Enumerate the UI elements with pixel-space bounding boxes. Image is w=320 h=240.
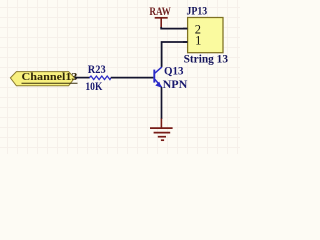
transistor Q13 <box>154 67 162 88</box>
pin 1 <box>183 41 188 43</box>
resistor R23 <box>89 76 111 80</box>
wire Q13 collector to JP13 pin 1 <box>162 42 188 67</box>
wire R23 to Q13 base <box>111 77 154 79</box>
svg-text:NPN: NPN <box>163 79 189 91</box>
svg-text:R23: R23 <box>88 64 106 76</box>
power RAW <box>149 6 171 28</box>
svg-text:Channel13: Channel13 <box>22 71 79 83</box>
svg-text:String 13: String 13 <box>184 54 229 66</box>
port Channel13 <box>10 71 78 86</box>
wire port to R23 <box>75 77 90 79</box>
svg-text:RAW: RAW <box>149 6 171 18</box>
svg-text:Q13: Q13 <box>164 66 184 78</box>
wire RAW to JP13 pin 2 <box>161 27 188 29</box>
wire Q13 emitter to ground <box>161 87 163 119</box>
pin 2 <box>183 28 188 30</box>
svg-text:1: 1 <box>195 33 201 47</box>
connector JP13 <box>183 18 223 53</box>
svg-text:10K: 10K <box>85 81 102 93</box>
svg-text:JP13: JP13 <box>187 6 208 18</box>
ground <box>150 119 173 141</box>
